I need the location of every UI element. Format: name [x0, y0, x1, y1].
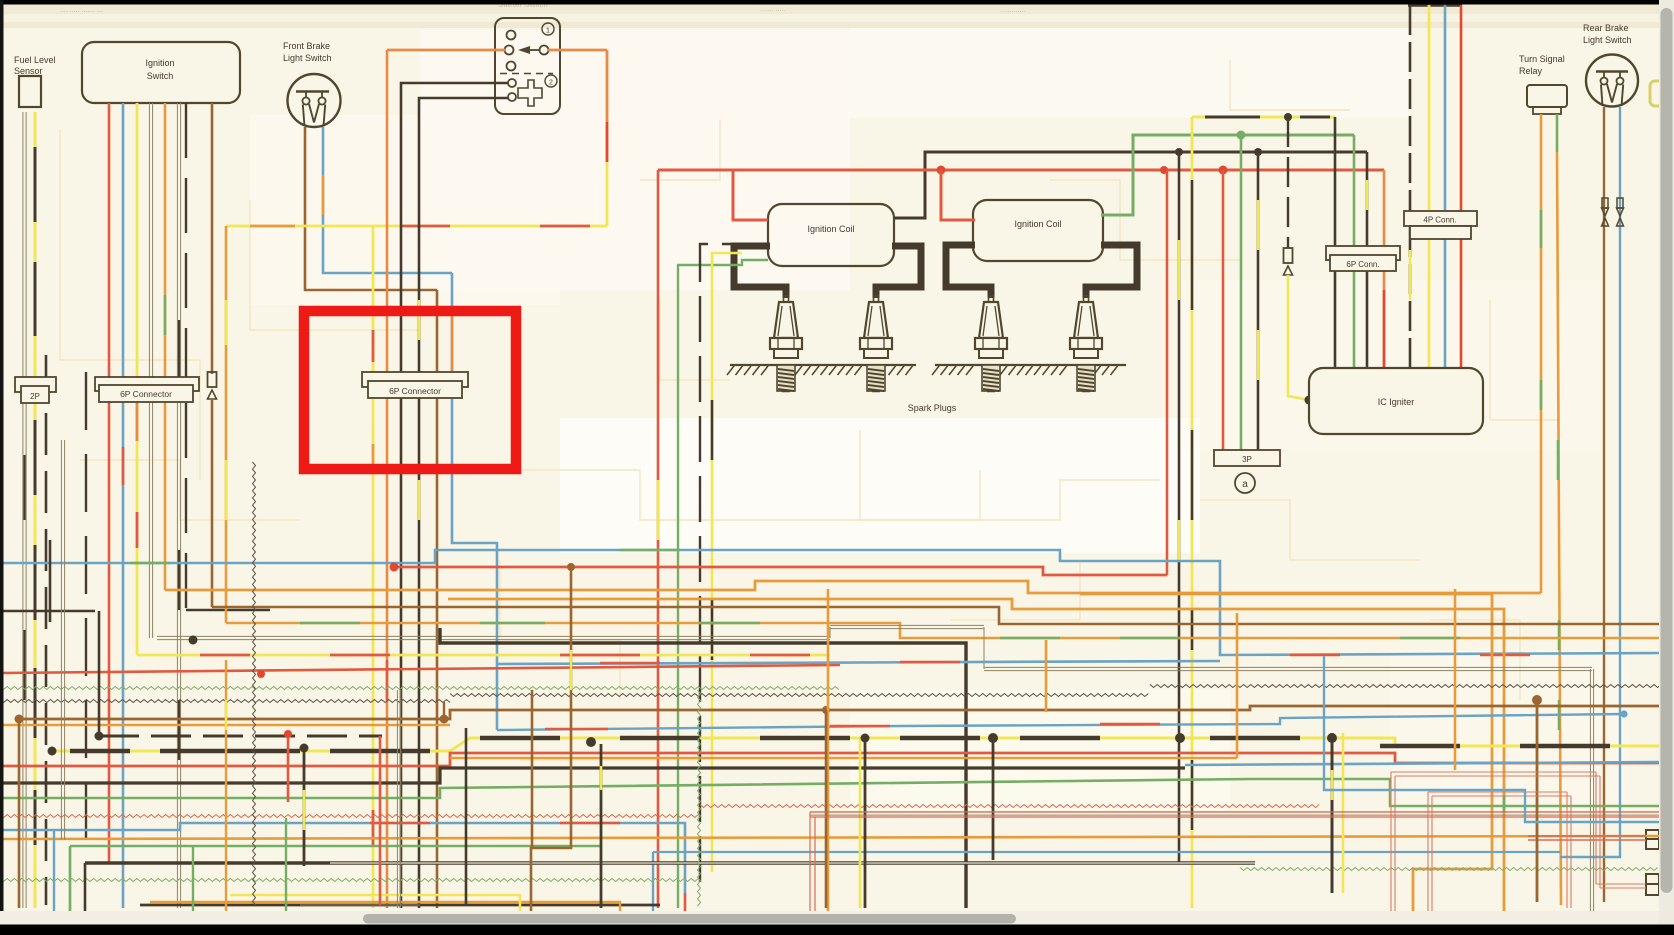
wire green2 h y846	[70, 846, 600, 930]
right edge connector E1	[1646, 830, 1659, 849]
red L bottom right to connector	[1528, 836, 1646, 840]
wire blue vertical x452 staircase	[452, 273, 497, 730]
svg-text:Light Switch: Light Switch	[283, 53, 332, 63]
wire white v x63	[61, 440, 64, 840]
wire black box h y863	[85, 863, 1255, 930]
wire orange h y599	[448, 599, 1504, 930]
svg-text:Fuel Level: Fuel Level	[14, 55, 56, 65]
left black bar	[0, 0, 4, 911]
wire yellow v x1343	[1342, 733, 1345, 893]
double red bottom right	[810, 812, 1660, 815]
wire yellow-red h y655	[137, 654, 830, 657]
svg-text:6P Connector: 6P Connector	[120, 389, 172, 399]
wire brown ignition	[211, 103, 214, 607]
coil1 HT lead right	[876, 246, 921, 298]
svg-text:Spark Plugs: Spark Plugs	[908, 403, 957, 413]
wire black v x993	[992, 737, 995, 860]
rear brake light switch	[1583, 23, 1662, 107]
right edge connector E2	[1646, 874, 1659, 895]
svg-text:....... .....: ....... .....	[760, 6, 785, 13]
wire black dashed v x86	[85, 372, 87, 863]
2P connector	[15, 377, 56, 403]
svg-text:2: 2	[549, 80, 553, 87]
wire yellow from fuel sensor	[34, 112, 37, 908]
svg-text:6P Conn.: 6P Conn.	[1346, 260, 1379, 269]
wire white h y638	[157, 625, 1594, 928]
wire orange-green h y623	[226, 623, 1660, 638]
wire red v x288	[284, 730, 292, 802]
spark plug 3	[975, 296, 1007, 392]
wire blue v x54	[0, 830, 54, 930]
wire orange-red x1384	[1383, 170, 1386, 368]
wire salmon h y673	[0, 665, 840, 678]
wire yellow x1431	[1428, 5, 1431, 368]
wire orange h y594 staircase	[1080, 594, 1492, 928]
wire black v x99	[98, 611, 101, 736]
svg-text:IC Igniter: IC Igniter	[1378, 397, 1415, 407]
wire black dashes	[70, 738, 1610, 751]
svg-text:Light Switch: Light Switch	[1583, 35, 1632, 45]
svg-text:a: a	[1242, 479, 1248, 490]
wire black v x466	[465, 728, 468, 905]
wire red stubs bottom right	[1391, 772, 1646, 928]
front brake light switch	[283, 41, 341, 127]
wire yellow h y895	[230, 895, 520, 930]
wire blue ignition	[122, 103, 125, 908]
wire zig v x254	[253, 462, 256, 905]
svg-text:Sensor: Sensor	[14, 66, 43, 76]
wire blue v x1500 bottom	[1324, 656, 1660, 822]
wire yellow horizontal y226	[373, 225, 607, 228]
coil2 HT lead left	[946, 245, 991, 298]
wire black x1179 long	[1178, 152, 1181, 864]
ground plugs 3-4	[932, 365, 1126, 375]
wire black x1258 to 3P	[1257, 152, 1260, 450]
wire orange-yellow vertical x226	[225, 226, 228, 623]
wire green h y788	[0, 779, 1660, 806]
wire orange3 h y725	[0, 724, 450, 727]
wire yellow-black main h y738	[48, 733, 1661, 756]
wire black h y768	[0, 762, 1660, 783]
spark plug 1	[770, 296, 802, 392]
wire yellow-black bus y117	[1192, 113, 1335, 121]
wire green zig h y686	[0, 687, 839, 690]
wire black h y905	[140, 904, 660, 907]
wire black coil bus y152	[894, 148, 1367, 218]
ignition switch	[82, 42, 240, 103]
top black bar	[0, 0, 1659, 5]
svg-text:6P Connector: 6P Connector	[389, 386, 441, 396]
wire green zig h y880	[0, 868, 1658, 882]
wire white ignition	[149, 103, 152, 638]
wire brown v x19	[18, 719, 21, 908]
spark plug 2	[860, 296, 892, 392]
wire white2 ignition	[177, 103, 180, 908]
wire dark thick h y643	[440, 628, 966, 908]
wire orange/green ignition	[164, 103, 167, 590]
wire blue4 h y823	[0, 823, 685, 930]
wire blue front brake	[323, 127, 452, 273]
wire blue5 h y852	[653, 852, 1560, 930]
wire brown vertical x437	[436, 290, 439, 908]
wire brown v x1537	[1532, 695, 1542, 902]
6P conn right box	[1326, 246, 1400, 271]
wire black dash h y736	[95, 732, 383, 741]
wire brown stub x444	[440, 702, 449, 724]
ghost traces	[60, 130, 200, 480]
wire red ignition	[108, 103, 111, 862]
wire red zig h y816	[0, 805, 1319, 818]
wire orange v x226 lower	[225, 660, 227, 930]
wire black drop x700	[700, 244, 768, 885]
turn signal relay	[1519, 54, 1567, 114]
4P conn box	[1404, 211, 1477, 239]
wire orange v x1046	[1045, 640, 1048, 712]
svg-text:1: 1	[546, 28, 550, 35]
wire brown v x571	[531, 567, 571, 930]
wire black x1410	[1409, 5, 1412, 368]
wire black v x865	[861, 734, 870, 909]
wire black x1367	[1366, 152, 1369, 368]
node a	[1235, 473, 1255, 493]
wire starter black 2	[419, 98, 508, 908]
wire white v x399	[397, 690, 400, 908]
6P connector left	[95, 377, 199, 402]
wire green zig v x699	[698, 690, 701, 906]
wire orange relay 1	[1540, 114, 1543, 593]
wire orange h y588	[165, 581, 1541, 593]
fuel level sensor	[14, 55, 56, 107]
wire red h y750	[0, 753, 1660, 766]
wire orange coil2 riser	[941, 170, 975, 220]
wire black dashed left	[45, 355, 48, 905]
wire yellow x1192 long	[1191, 117, 1194, 908]
svg-text:Turn Signal: Turn Signal	[1519, 54, 1565, 64]
wire orange h y902	[150, 902, 620, 930]
wire green drop x678	[678, 260, 768, 908]
starter switch box	[495, 0, 560, 114]
svg-text:Relay: Relay	[1519, 66, 1543, 76]
wire yellow drop x712	[712, 253, 742, 872]
svg-text:Rear Brake: Rear Brake	[1583, 23, 1629, 33]
wire green v x286	[285, 818, 287, 930]
wire white pair from fuel sensor	[23, 112, 26, 908]
wire orange v x1455 bottom	[1454, 589, 1457, 770]
wire red x1462	[1460, 5, 1463, 368]
svg-text:Ignition: Ignition	[145, 58, 174, 68]
wire orange x1224 to 3P	[1222, 170, 1225, 450]
svg-text:Ignition Coil: Ignition Coil	[807, 224, 854, 234]
wire red v x380	[379, 736, 382, 905]
wire green x1354	[1353, 135, 1356, 368]
horizontal scrollbar	[0, 911, 1659, 925]
svg-text:2P: 2P	[30, 392, 40, 401]
svg-text:.............: .............	[1000, 7, 1025, 14]
wire blue rear brake	[1560, 107, 1620, 857]
wire green v x193	[192, 846, 194, 930]
spark plugs label	[908, 403, 957, 413]
wire black-yellow x1288 with fuse	[1284, 117, 1314, 405]
ignition coil 2	[973, 200, 1103, 261]
wire black zig h y701	[0, 685, 1672, 703]
wire brown v x532	[531, 690, 534, 848]
wire black cross x50	[0, 540, 95, 622]
wire salmon h y572	[390, 563, 1168, 576]
wire black x1335	[1334, 117, 1337, 368]
wire black dashed ignition	[186, 103, 270, 610]
wire orange starter horizontal	[387, 49, 607, 52]
wire orange5 h y839	[0, 836, 1660, 839]
ground plugs 1-2	[727, 365, 916, 375]
wire green v x70	[69, 846, 71, 930]
wire yellow v x860	[859, 738, 862, 908]
fuse symbol near 6P connector	[208, 372, 217, 399]
red highlight box	[304, 311, 516, 469]
svg-text:4P Conn.: 4P Conn.	[1423, 216, 1456, 225]
svg-text:Switch: Switch	[147, 71, 174, 81]
wire red x1167 riser	[1166, 170, 1169, 575]
wire blue2 h y663	[497, 661, 1220, 664]
IC igniter	[1309, 368, 1483, 434]
svg-text:3P: 3P	[1242, 455, 1252, 464]
connector pair rear brake	[1602, 198, 1624, 226]
wire brown h y607	[212, 607, 1660, 624]
svg-text:Ignition Coil: Ignition Coil	[1014, 219, 1061, 229]
svg-text:.... ..... ....... ...: .... ..... ....... ...	[60, 7, 103, 14]
spark plug 4	[1070, 296, 1102, 392]
wire yellow v x590	[600, 744, 603, 908]
3P connector	[1214, 450, 1280, 466]
wire black v x1332	[1331, 733, 1334, 893]
wire blue x1447	[1444, 5, 1447, 368]
red pair lines	[810, 812, 1660, 930]
wire brown v x826	[825, 710, 828, 908]
wire green coil bus y135	[1101, 131, 1354, 216]
wire yellow ignition	[136, 103, 139, 655]
wire orange coil bus y166	[658, 166, 1384, 221]
wire brown2 h y710	[15, 706, 1661, 724]
bottom black bar	[0, 925, 1674, 931]
wire yellow main vertical x373	[372, 226, 375, 908]
coil2 HT lead right	[1086, 245, 1137, 298]
wire green-orange relay 2	[1557, 114, 1561, 905]
wire brown front brake	[305, 127, 437, 290]
wire red drop x658	[657, 170, 660, 908]
coil1 HT lead left	[734, 246, 786, 298]
svg-text:Front Brake: Front Brake	[283, 41, 330, 51]
vertical scrollbar	[1659, 0, 1674, 930]
wire orange v x828	[827, 589, 830, 930]
6P connector highlighted	[362, 372, 468, 398]
wire blue3 h y724	[497, 710, 1628, 730]
wire orange main vertical x387	[386, 50, 389, 908]
wire starter black 1	[401, 83, 508, 908]
wire brown rear brake	[1603, 107, 1605, 902]
wire green x1241 to 3P	[1240, 135, 1243, 450]
wire orange4 h y758	[450, 613, 1237, 758]
ignition coil 1	[768, 204, 894, 266]
wire orange right riser	[606, 50, 609, 226]
wire blue main h y560	[0, 550, 1660, 655]
wire yellow left horizontal to x226	[226, 225, 373, 228]
wire black v x304	[300, 744, 309, 867]
wire 4P top bus	[1408, 4, 1462, 6]
